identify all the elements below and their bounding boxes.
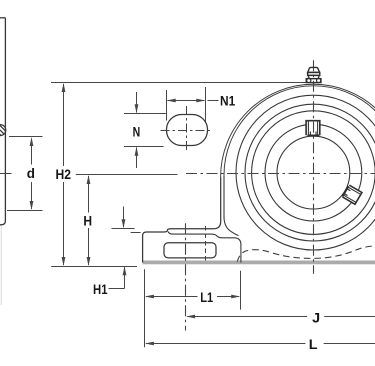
pad rear top edge merging into base top edge [168, 232, 241, 263]
bottom L1 right extension line [240, 271, 242, 310]
shared bottom extension line for H2 H H1 [51, 266, 137, 268]
svg-text:H2: H2 [56, 166, 72, 182]
bearing seal circle r62 [252, 111, 375, 235]
housing dome inner arc [224, 86, 375, 175]
ground baseline (thick gray) [143, 261, 375, 265]
dimension H2 line upper segment with up arrow [63, 84, 65, 166]
svg-text:H: H [83, 212, 92, 228]
side view ball (hatched section) [0, 118, 8, 143]
dimension H line lower segment with down arrow [88, 228, 90, 265]
dimension H top extension line [76, 174, 178, 176]
top set screw mask [307, 121, 320, 135]
dimension N upper arrow pointing down [136, 92, 138, 113]
dimension N bottom extension line [124, 146, 164, 148]
grease fitting base [306, 79, 321, 83]
side view right edge line [0, 18, 5, 225]
top set screw body right edge [317, 121, 319, 135]
bottom left extension line [144, 269, 146, 347]
svg-text:N: N [133, 123, 141, 139]
dimension H1 leader [109, 288, 125, 290]
side view faint base edge [0, 226, 2, 305]
dimension H2 line lower segment with down arrow [63, 182, 65, 265]
bearing outer ring circle r68 [245, 104, 375, 241]
housing left wall outer profile into base pad [143, 177, 221, 262]
housing dome outer arc [221, 84, 375, 177]
lower right set screw (rotated copy) [342, 185, 362, 204]
top set screw bracket [306, 121, 320, 136]
grease fitting cap [308, 67, 320, 72]
svg-text:d: d [27, 165, 35, 181]
housing left wall inner flare [224, 175, 239, 235]
dimension H2 top extension line [51, 82, 306, 84]
bolt hole detail vertical centerline [186, 106, 188, 153]
side view centerline stub [0, 173, 12, 175]
bolt hole detail obround [167, 115, 208, 146]
dimension N1 left extension line [166, 90, 168, 121]
hidden edge in base (dashed) [205, 226, 207, 262]
grease fitting base right circle [317, 78, 321, 82]
base bolt slot [164, 243, 216, 258]
front view vertical centerline [313, 60, 315, 274]
svg-text:N1: N1 [220, 93, 235, 109]
dimension H1 lower arrow pointing up [124, 267, 126, 289]
dimension H1 top extension line [112, 228, 135, 230]
N1 leader stub [208, 100, 219, 102]
dimension N1 right extension line [205, 87, 207, 123]
dimension J line [187, 316, 307, 318]
bolt hole detail horizontal centerline [161, 130, 213, 132]
dimension L line [146, 343, 305, 345]
dimension H line upper segment with up arrow [88, 176, 90, 213]
dimension d bottom extension line [7, 210, 43, 212]
dimension N1 line with outward arrows [168, 100, 205, 102]
grease fitting hex band [308, 72, 320, 75]
bolt centerline [185, 223, 187, 330]
dimension L1 line [146, 296, 198, 298]
svg-text:H1: H1 [93, 281, 108, 297]
svg-text:L: L [309, 336, 318, 352]
dimension d top extension line [9, 136, 43, 138]
dimension H1 upper arrow pointing down [123, 207, 125, 228]
side view top tick [0, 17, 5, 19]
front view horizontal centerline [186, 173, 375, 175]
top set screw body left edge [307, 121, 309, 135]
lower right set screw mask [343, 186, 361, 204]
base hidden relief curve (dashed) [237, 246, 375, 262]
dimension N top extension line [124, 113, 166, 115]
grease fitting neck [308, 75, 319, 78]
grease fitting base left circle [307, 78, 311, 82]
top set screw bottom edge [307, 134, 319, 136]
top set screw socket marks [309, 132, 311, 136]
inner ring circle r48 [265, 124, 362, 221]
svg-text:L1: L1 [200, 289, 213, 305]
svg-text:J: J [312, 309, 320, 325]
stub tick left of base [131, 232, 141, 234]
bore circle r36 [277, 136, 350, 209]
dimension N lower arrow pointing up [136, 148, 138, 169]
housing bore circle r77 [236, 95, 375, 250]
dimension d line upper segment with up arrow [31, 139, 33, 165]
dimension d line lower segment with down arrow [31, 182, 33, 209]
